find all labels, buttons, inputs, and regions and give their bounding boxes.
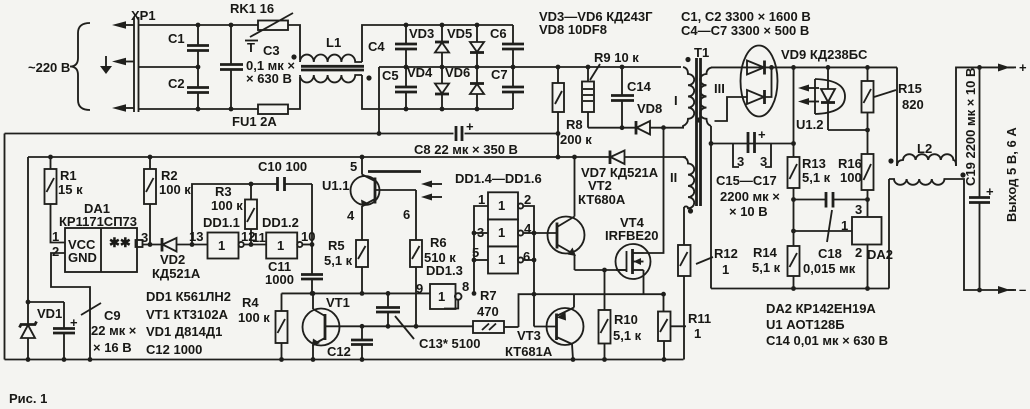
node VT4 source junction <box>661 292 666 297</box>
node gate row R10 <box>602 268 607 273</box>
svg-text:VD2: VD2 <box>160 252 185 267</box>
node R13 top rail <box>791 65 796 70</box>
wire R3 feedback left <box>192 184 277 245</box>
svg-text:200 к: 200 к <box>560 132 592 147</box>
svg-text:DD1.3: DD1.3 <box>426 263 463 278</box>
wire U1.1 base / R6 column <box>415 190 417 240</box>
node C8 wire junction <box>377 131 382 136</box>
LED light arrow 2 <box>798 98 819 105</box>
wire VT1 base row y326 <box>325 325 473 327</box>
capacitor C5 <box>382 67 417 109</box>
node R10 bottom <box>602 357 607 362</box>
svg-text:R5: R5 <box>328 238 345 253</box>
node C1/C2 bottom <box>196 107 201 112</box>
node C18 left <box>791 197 796 202</box>
diode VD6 <box>445 65 484 109</box>
node R11 bottom <box>662 357 667 362</box>
output minus arrow <box>998 282 1026 297</box>
capacitor C1 <box>168 25 209 67</box>
svg-text:U1 АОТ128Б: U1 АОТ128Б <box>766 317 845 332</box>
svg-text:U1.1: U1.1 <box>322 178 349 193</box>
capacitor C19 <box>969 67 994 290</box>
svg-text:VD5: VD5 <box>447 26 472 41</box>
node C11 bottom <box>310 291 315 296</box>
resistor R9 <box>582 50 639 128</box>
resistor R7 <box>473 288 519 333</box>
svg-text:VD9 КД238БС: VD9 КД238БС <box>781 47 868 62</box>
node VD9 cathode rail <box>769 65 774 70</box>
svg-text:9: 9 <box>416 281 423 296</box>
svg-text:3: 3 <box>737 154 744 169</box>
node C9 bottom <box>62 357 67 362</box>
diode VD4 <box>407 65 449 109</box>
wire DD1.1 out to DD1.2 in <box>244 244 266 246</box>
svg-text:10: 10 <box>301 229 315 244</box>
wire DA1 pin2 to ground <box>51 253 90 360</box>
svg-text:VD8: VD8 <box>637 101 662 116</box>
node C12 bottom <box>360 357 365 362</box>
wire C10/C11 column <box>311 184 313 274</box>
node U1.2 anode on rail <box>826 65 831 70</box>
svg-text:–: – <box>1019 282 1026 297</box>
T1 winding II <box>670 157 694 208</box>
node R15 top <box>865 65 870 70</box>
node C18 right <box>865 197 870 202</box>
node L2 dot left <box>888 158 893 163</box>
node R3 bottom <box>249 242 254 247</box>
svg-text:VD8 10DF8: VD8 10DF8 <box>539 22 607 37</box>
svg-text:C19 2200 мк × 10 В: C19 2200 мк × 10 В <box>963 68 978 186</box>
node C1/C2 top <box>196 23 201 28</box>
node DD inputs to net <box>472 291 477 296</box>
svg-text:2: 2 <box>524 192 531 207</box>
svg-text:+: + <box>758 127 766 142</box>
resistor R3 <box>211 184 257 245</box>
svg-text:VT3: VT3 <box>517 328 541 343</box>
T1 core <box>695 58 698 206</box>
svg-text:C5: C5 <box>382 68 399 83</box>
svg-text:R3: R3 <box>215 184 232 199</box>
svg-text:R15: R15 <box>898 81 922 96</box>
svg-text:C15—C17: C15—C17 <box>716 173 777 188</box>
node R8 bottom <box>556 155 561 160</box>
svg-text:VD3: VD3 <box>409 26 434 41</box>
svg-text:✱✱: ✱✱ <box>109 235 131 250</box>
XP1 pin arrow bottom <box>112 104 134 112</box>
zener VD1 <box>20 302 63 360</box>
node VT3 collector bottom <box>571 357 576 362</box>
node R5 bottom <box>360 291 365 296</box>
mosfet VT4 <box>605 130 664 294</box>
svg-text:Рис. 1: Рис. 1 <box>9 391 47 406</box>
svg-text:5,1 к: 5,1 к <box>613 328 642 343</box>
svg-text:II: II <box>670 170 677 185</box>
optocoupler U1.2 LED <box>796 67 868 132</box>
svg-text:1: 1 <box>498 225 505 240</box>
resistor R14 <box>752 245 800 289</box>
wire emitter net y294 <box>534 293 664 295</box>
resistor R2 <box>144 157 191 245</box>
optocoupler U1.1 phototransistor <box>322 157 421 223</box>
wire R7 to VT3 base node <box>519 294 535 327</box>
svg-text:DD1.1: DD1.1 <box>203 215 240 230</box>
svg-text:5,1 к: 5,1 к <box>752 260 781 275</box>
resistor R11 <box>658 311 711 360</box>
svg-text:2: 2 <box>52 244 59 259</box>
supervisor DA1 <box>52 201 148 272</box>
svg-text:R16: R16 <box>838 156 862 171</box>
svg-text:1: 1 <box>694 326 701 341</box>
svg-text:100 к: 100 к <box>211 198 243 213</box>
wire winding II to R12 <box>683 207 685 245</box>
capacitor C2 <box>168 67 209 109</box>
svg-text:C14: C14 <box>627 79 652 94</box>
svg-text:× 630 В: × 630 В <box>246 71 292 86</box>
svg-text:3: 3 <box>760 154 767 169</box>
node T1 winding III dot <box>696 117 701 122</box>
capacitor C11 <box>265 259 323 293</box>
svg-text:2: 2 <box>855 245 862 260</box>
wire left edge down <box>4 134 6 360</box>
svg-text:R13: R13 <box>802 156 826 171</box>
inverter DD1.4 <box>478 192 531 219</box>
svg-text:22 мк ×: 22 мк × <box>91 323 137 338</box>
wire DD inputs rail <box>474 206 488 293</box>
node U1.1 collector on rail <box>360 155 365 160</box>
svg-text:1: 1 <box>277 238 284 253</box>
node R14 bottom <box>791 286 796 291</box>
svg-text:IRFBE20: IRFBE20 <box>605 228 658 243</box>
svg-text:C4—C7 3300 × 500 В: C4—C7 3300 × 500 В <box>681 23 809 38</box>
resistor R13 <box>788 67 831 246</box>
svg-text:R10: R10 <box>614 312 638 327</box>
T1 winding III <box>700 67 725 126</box>
wire mid rail left segment <box>139 66 200 68</box>
diode VD7 <box>581 151 659 181</box>
wire VT4 source to R11 <box>663 294 665 311</box>
resistor R6 <box>410 235 456 326</box>
diode VD2 <box>152 238 208 281</box>
wire mid rail to T1 <box>513 66 681 68</box>
svg-text:DD1.2: DD1.2 <box>262 215 299 230</box>
svg-text:C12: C12 <box>327 344 351 359</box>
node VT1 emitter bottom <box>311 357 316 362</box>
resistor R4 <box>238 295 288 360</box>
svg-text:+: + <box>466 119 474 134</box>
svg-text:C2: C2 <box>168 76 185 91</box>
svg-text:C18: C18 <box>818 246 842 261</box>
svg-text:КР1171СП73: КР1171СП73 <box>59 214 137 229</box>
node C19 bottom <box>977 288 982 293</box>
svg-text:5,1 к: 5,1 к <box>324 253 353 268</box>
svg-text:R4: R4 <box>242 295 259 310</box>
svg-text:4: 4 <box>347 208 355 223</box>
capacitor C12 <box>327 326 373 359</box>
svg-text:100: 100 <box>840 170 862 185</box>
node C3 top <box>229 23 234 28</box>
connector XP1 double line <box>133 17 135 112</box>
svg-text:11: 11 <box>252 230 266 245</box>
node R4 bottom <box>279 357 284 362</box>
svg-text:VD4: VD4 <box>407 65 433 80</box>
svg-text:C7: C7 <box>491 67 508 82</box>
node C19 top <box>977 65 982 70</box>
inverter DD1.2 <box>252 215 315 259</box>
inverter DD1.3 <box>416 263 469 309</box>
inverter DD1.1 <box>189 215 255 259</box>
output plus arrow <box>998 60 1027 75</box>
capacitor C6 <box>490 25 524 67</box>
earth ground symbol <box>100 56 112 74</box>
svg-text:КД521А: КД521А <box>152 266 201 281</box>
svg-text:× 10 В: × 10 В <box>729 204 768 219</box>
light arrow 1 <box>421 181 442 188</box>
wire control top rail y157 <box>28 156 610 158</box>
wire L1 to bridge top <box>362 25 513 62</box>
resistor R15 <box>862 67 924 154</box>
svg-text:2200 мк ×: 2200 мк × <box>720 189 780 204</box>
svg-text:R8: R8 <box>566 117 583 132</box>
choke L2 bottom winding <box>889 179 957 185</box>
diode VD8 <box>636 101 662 135</box>
svg-text:КТ681А: КТ681А <box>505 344 553 359</box>
capacitor C10 <box>258 159 312 191</box>
wire L2 bottom out to minus rail <box>957 179 1014 290</box>
svg-text:8: 8 <box>462 279 469 294</box>
diode VD5 <box>447 25 484 67</box>
XP1 pin arrow top <box>112 21 134 29</box>
node L1 phase dot right <box>366 75 371 80</box>
svg-text:RK1 16: RK1 16 <box>230 1 274 16</box>
svg-text:R7: R7 <box>480 288 497 303</box>
wire top rail left segment <box>139 24 259 26</box>
svg-text:GND: GND <box>68 250 97 265</box>
wire secondary plus rail <box>711 66 897 68</box>
wire RK1 to L1 <box>288 25 300 60</box>
svg-text:R12: R12 <box>714 246 738 261</box>
node VD1 bottom <box>26 357 31 362</box>
wire bottom rail left segment <box>139 108 259 110</box>
capacitor C9 <box>53 302 137 360</box>
XP1 pin arrow middle (earth) <box>112 58 134 66</box>
svg-text:VT1 КТ3102А: VT1 КТ3102А <box>146 307 229 322</box>
svg-text:6: 6 <box>403 207 410 222</box>
svg-text:C8 22 мк × 350 В: C8 22 мк × 350 В <box>414 142 518 157</box>
T1 winding I <box>674 67 694 128</box>
node bridge top dots <box>404 23 409 28</box>
diode VD3 <box>409 25 449 67</box>
svg-text:R9 10 к: R9 10 к <box>594 50 639 65</box>
node DA2 pin1 junction <box>791 229 796 234</box>
svg-text:Т: Т <box>247 40 255 55</box>
svg-text:FU1 2A: FU1 2A <box>232 114 277 129</box>
svg-text:DD1 К561ЛН2: DD1 К561ЛН2 <box>146 289 231 304</box>
node C13 top <box>386 291 391 296</box>
parts list text block <box>146 289 231 357</box>
wire DA2 pin1 <box>794 230 853 232</box>
node VD2/R3 junction <box>190 242 195 247</box>
svg-text:820: 820 <box>902 97 924 112</box>
inverter DD1.6 <box>472 245 530 274</box>
svg-text:5: 5 <box>350 159 357 174</box>
node R8/C8 <box>556 131 561 136</box>
node mid rail x513 <box>511 65 516 70</box>
node C13 bottom <box>386 324 391 329</box>
wire FU1 to L1 <box>288 77 300 109</box>
svg-text:C4: C4 <box>368 39 385 54</box>
inductor L1 top winding <box>300 55 362 62</box>
wire minus rail up to L2 <box>888 179 890 289</box>
wire plus rail into L2 <box>896 67 898 166</box>
svg-text:L1: L1 <box>326 35 341 50</box>
svg-text:1: 1 <box>498 198 505 213</box>
svg-text:1: 1 <box>218 238 225 253</box>
wire DD outputs rail <box>523 206 534 327</box>
svg-text:100 к: 100 к <box>159 182 191 197</box>
node T1 primary dot <box>685 57 690 62</box>
node R13 row <box>791 141 796 146</box>
svg-text:DD1.4—DD1.6: DD1.4—DD1.6 <box>455 171 542 186</box>
node C15 row left <box>709 141 714 146</box>
capacitor C3 <box>220 25 295 109</box>
transistor VT3 <box>505 294 584 359</box>
wire VD8 row <box>588 127 636 129</box>
node L1 phase dot left <box>291 54 296 59</box>
parts list right <box>766 301 888 348</box>
svg-text:0,015 мк: 0,015 мк <box>803 261 856 276</box>
capacitor C7 <box>491 67 524 109</box>
node C14 bottom <box>620 125 625 130</box>
node VT1 collector top <box>311 291 316 296</box>
wire winding III bottom column <box>710 126 712 289</box>
svg-text:C9: C9 <box>104 308 121 323</box>
svg-text:VT1: VT1 <box>326 295 350 310</box>
node R9 top <box>586 65 591 70</box>
node R15/R16 LED junction <box>865 128 870 133</box>
node C1/C2 mid <box>196 65 201 70</box>
thermistor RK1 <box>245 13 293 55</box>
LED light arrow 1 <box>798 85 819 92</box>
capacitor C15-C17 <box>716 127 780 219</box>
node R1 top <box>48 155 53 160</box>
transistor VT1 <box>303 293 350 359</box>
svg-text:R6: R6 <box>430 235 447 250</box>
capacitor C13 <box>376 293 480 351</box>
node R6 bottom on base wire <box>414 324 419 329</box>
inductor L1 core <box>301 65 364 68</box>
wire gate-drive net y293 <box>282 292 431 294</box>
svg-text:U1.2: U1.2 <box>796 117 823 132</box>
svg-text:R14: R14 <box>753 245 778 260</box>
svg-text:1: 1 <box>841 218 848 233</box>
node C12 top <box>360 324 365 329</box>
wire DA1 pin3 out <box>143 244 163 246</box>
svg-text:C3: C3 <box>263 43 280 58</box>
svg-text:1000: 1000 <box>265 272 294 287</box>
wire L2 top out to plus rail <box>956 67 1014 166</box>
transistor VT2 <box>534 157 626 270</box>
wire secondary minus rail <box>711 288 889 290</box>
wire C15 row <box>711 143 794 145</box>
svg-text:5,1 к: 5,1 к <box>802 170 831 185</box>
resistor R1 <box>45 157 84 243</box>
svg-text:VD6: VD6 <box>445 65 470 80</box>
wire VT2 emitter to gate row <box>575 269 628 271</box>
node R8 top <box>556 65 561 70</box>
regulator DA2 <box>841 202 893 289</box>
inverter DD1.5 <box>477 219 532 246</box>
wire C8 rail <box>5 133 454 135</box>
svg-text:R11: R11 <box>688 311 711 326</box>
svg-text:I: I <box>674 93 678 108</box>
node DA2 pin2 bottom <box>865 286 870 291</box>
node L2 dot right <box>960 172 965 177</box>
wire VD1/C9 link <box>28 301 64 303</box>
wire inner left vertical <box>27 157 29 302</box>
svg-text:Выход 5 В, 6 А: Выход 5 В, 6 А <box>1004 127 1019 222</box>
svg-text:6: 6 <box>523 249 530 264</box>
node C14 top <box>620 65 625 70</box>
svg-text:VT2: VT2 <box>588 178 612 193</box>
svg-text:КТ680А: КТ680А <box>578 192 626 207</box>
resistor R5 <box>324 238 368 293</box>
svg-text:470: 470 <box>477 304 499 319</box>
svg-text:C12 1000: C12 1000 <box>146 342 202 357</box>
dual diode VD9 <box>715 46 868 122</box>
svg-text:13: 13 <box>189 229 203 244</box>
svg-text:C6: C6 <box>490 26 507 41</box>
svg-text:1: 1 <box>498 252 505 267</box>
svg-text:+: + <box>1019 60 1027 75</box>
svg-text:1: 1 <box>438 289 445 304</box>
svg-text:DA2 КР142ЕН19А: DA2 КР142ЕН19А <box>766 301 876 316</box>
svg-text:VD1: VD1 <box>37 306 62 321</box>
svg-text:100 к: 100 к <box>238 310 270 325</box>
svg-text:15 к: 15 к <box>58 182 83 197</box>
svg-text:С14 0,01 мк × 630 В: С14 0,01 мк × 630 В <box>766 333 888 348</box>
svg-text:R1: R1 <box>60 168 77 183</box>
svg-text:C1: C1 <box>168 31 185 46</box>
node R3 top <box>249 182 254 187</box>
svg-text:III: III <box>714 81 725 96</box>
svg-text:3: 3 <box>141 230 148 245</box>
fuse FU1 <box>232 105 288 130</box>
svg-text:1: 1 <box>478 192 485 207</box>
resistor R8 <box>553 67 593 157</box>
resistor R12 <box>678 245 738 360</box>
node bridge mid dots <box>404 65 409 70</box>
svg-text:1: 1 <box>722 262 729 277</box>
node R2 bottom <box>148 242 153 247</box>
svg-text:R2: R2 <box>161 168 178 183</box>
node VD8 right junction <box>661 125 666 130</box>
svg-text:C10 100: C10 100 <box>258 159 307 174</box>
svg-text:DA2: DA2 <box>867 247 893 262</box>
node R2 top <box>148 155 153 160</box>
choke L2 top winding <box>897 154 956 166</box>
node DD1.2 out junction <box>310 242 315 247</box>
capacitor C8 <box>414 119 518 157</box>
inductor L1 bottom winding <box>300 75 362 83</box>
svg-text:C13* 5100: C13* 5100 <box>419 336 480 351</box>
node VT2 collector on rail <box>572 155 577 160</box>
svg-text:T1: T1 <box>694 45 709 60</box>
capacitor C14 <box>611 67 652 128</box>
wire DD1.2 out <box>302 244 312 246</box>
resistor R16 <box>838 154 874 217</box>
resistor R10 <box>599 270 642 360</box>
wire bridge mid rail <box>379 66 513 68</box>
